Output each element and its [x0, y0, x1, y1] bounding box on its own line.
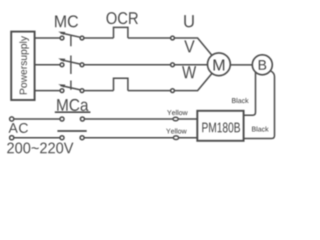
label Black lower: [252, 126, 269, 131]
overload OCR element phase U: [114, 27, 128, 38]
aux contact MCa pole 1: [55, 112, 91, 121]
label OCR: [107, 12, 138, 24]
wire C2 AC terminal to MCa pole 2: [10, 136, 60, 140]
MC linkage dashed: [70, 36, 72, 90]
controller PM180B: [197, 111, 243, 141]
label Yellow 2: [166, 128, 186, 133]
terminal W: [171, 89, 175, 93]
terminal V: [171, 63, 175, 67]
label Black upper: [232, 98, 249, 103]
wire L3 terminal to motor: [174, 73, 212, 91]
wire L3 MC to OCR bump: [84, 90, 114, 92]
wire M to B: [230, 64, 252, 66]
wire L3 from supply to MC pole 3: [35, 90, 61, 92]
wire L3 OCR to terminal W: [128, 90, 171, 92]
wire L1 OCR to terminal U: [128, 37, 171, 39]
wire C2 MCa to PM180B: [84, 137, 197, 139]
label Yellow 1: [167, 110, 187, 115]
wire black A : B to PM180B top right: [244, 73, 256, 116]
label W: [182, 66, 196, 78]
wire L2 terminal to motor: [174, 64, 207, 66]
label MCa: [57, 99, 88, 111]
terminal yellow 1: [173, 117, 178, 121]
label V: [184, 40, 194, 52]
contactor MC pole 3: [58, 84, 84, 92]
label MC: [55, 15, 78, 27]
motor M: [208, 53, 231, 76]
wire L1 terminal to motor: [174, 38, 212, 56]
wire C1 AC terminal to MCa pole 1: [10, 117, 60, 121]
overload OCR element phase W: [114, 78, 128, 90]
terminal yellow 2: [173, 136, 178, 140]
contactor MC pole 1: [58, 32, 84, 40]
wire black B : B to PM180B bottom right: [244, 71, 275, 139]
label U: [184, 15, 193, 27]
wire C1 MCa to PM180B: [84, 118, 197, 120]
wire L1 from supply to MC pole 1: [35, 37, 61, 39]
brake B: [252, 55, 272, 75]
wire L1 MC to OCR bump: [84, 37, 114, 39]
label AC: [9, 123, 28, 133]
label 200~220V: [7, 142, 73, 153]
terminal U: [171, 36, 175, 40]
contactor MC pole 2: [58, 58, 84, 66]
aux contact MCa pole 2: [57, 131, 86, 140]
power supply PS: [11, 32, 34, 100]
wire L2 from supply to MC pole 2: [35, 64, 61, 66]
wire L2 MC to terminal V: [84, 64, 171, 66]
